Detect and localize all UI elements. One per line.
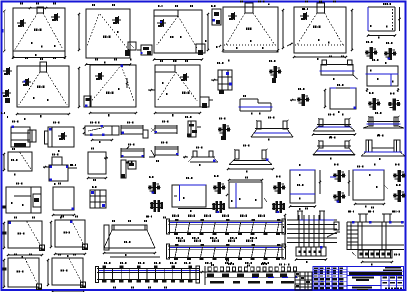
panel P2 gusset with diagonal xyxy=(78,4,136,66)
labels above toothed bar TB1 xyxy=(211,263,282,266)
grid G2 welded cage panel xyxy=(347,207,404,266)
bridge BR6 U-bearing xyxy=(361,134,405,160)
plate P11 square plate xyxy=(324,84,356,113)
bridge BR1 bearing with blue line xyxy=(251,117,293,141)
panel Q5 clipped gusset xyxy=(47,253,86,292)
plate R8 blue-banded plate xyxy=(289,164,321,210)
panel P5 trapezoid with dashed chord xyxy=(287,0,353,60)
plate P13 small plate xyxy=(52,183,75,219)
plate F3 splice plate xyxy=(151,120,177,134)
grid G1 welded mesh panel xyxy=(283,208,340,263)
bracket V1 vertical channel xyxy=(185,116,201,137)
label row under splice plates xyxy=(126,160,159,164)
panel P9 gusset xyxy=(148,60,213,116)
panel Q2 clipped gusset xyxy=(3,216,45,258)
beam BM2 second splice girder xyxy=(167,240,286,264)
bridge BR2 bearing with blue line xyxy=(312,113,356,138)
bar TB1 castellated strip xyxy=(200,259,298,285)
profile Z1 stepped plate with blue line xyxy=(239,95,273,115)
bracket X1 cross detail xyxy=(365,41,378,59)
bracket X3 cross detail xyxy=(269,60,282,83)
bracket X6 cross detail xyxy=(388,93,401,111)
chain CH2 cross details column xyxy=(212,175,226,213)
chain CH3 cross details column xyxy=(272,175,286,213)
panel P8 gusset xyxy=(84,58,137,116)
plate R4 plain plate xyxy=(87,148,108,181)
bracket P7a edge welds xyxy=(16,57,80,117)
channel H1 hat with blue flange xyxy=(320,55,358,79)
detail M1 mesh stub xyxy=(90,186,106,208)
plate R5 flanged plate xyxy=(45,121,75,152)
panel P1 trapezoid gusset top-left xyxy=(3,2,66,59)
bracket BK1 low bearing xyxy=(183,146,218,166)
bracket X2 cross detail xyxy=(384,42,397,60)
labels under cross chain CH1 xyxy=(146,216,166,219)
label left edge 40-4 xyxy=(1,112,8,118)
base D1 column base left xyxy=(11,118,36,147)
plate F1 splice plate xyxy=(83,121,119,143)
plate P10 blue-lined plate xyxy=(366,59,400,92)
chain CH5 crosses right edge xyxy=(393,164,406,202)
plate F4 splice plate xyxy=(121,143,144,158)
panel Q4 clipped gusset xyxy=(3,253,42,292)
left frame tick marks xyxy=(1,29,7,271)
bracket BK2 tee bracket xyxy=(121,160,136,178)
chain CH4 crosses xyxy=(330,164,346,203)
beam BM3 bottom splice girder xyxy=(96,257,201,288)
plate P6 blue-edged plate top-right xyxy=(367,3,401,39)
plate F2 splice plate xyxy=(121,121,148,138)
panel P12 plate with web left xyxy=(6,182,41,213)
bridge BR5 bearing with blue line xyxy=(313,136,355,159)
bracket X7 cross detail xyxy=(218,117,231,140)
bridge BR4 bearing xyxy=(227,144,274,172)
plate F5 splice plate xyxy=(149,141,179,157)
plate R6 blue-edged plate xyxy=(172,177,212,212)
label row under mesh G1 xyxy=(284,264,289,266)
bracket P3a base angle xyxy=(153,5,209,62)
channel HT1 hat with tab xyxy=(43,153,77,185)
chain CH1 cross details column xyxy=(148,176,163,212)
panel HT2 wide hat pedestal xyxy=(103,220,156,256)
bracket B1 channel piece xyxy=(211,60,232,94)
plate R7 plate with blue rib xyxy=(226,176,267,208)
bracket X5 cross detail xyxy=(368,92,381,110)
title block GOST stamp xyxy=(313,267,404,291)
bracket X4 cross detail xyxy=(290,88,310,106)
table TD1 parts list small xyxy=(295,272,312,290)
plate Q1 clipped plate xyxy=(3,148,32,176)
plate R9 blue-top plate xyxy=(348,164,388,208)
panel Q3 clipped gusset xyxy=(50,215,88,257)
bridge BR3 bearing tall posts xyxy=(363,112,404,136)
beam BM1 top splice girder xyxy=(167,215,286,239)
bracket P4a column stub xyxy=(216,0,284,52)
